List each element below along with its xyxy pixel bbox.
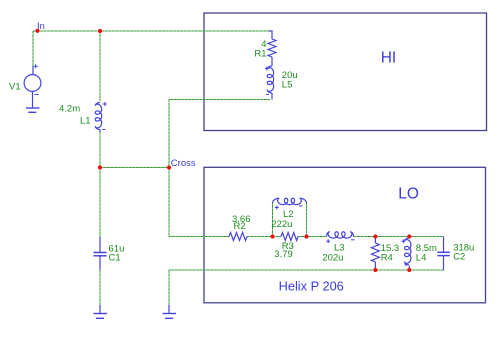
junction L4 bottom bbox=[407, 268, 411, 272]
L3 minus mark bbox=[351, 239, 355, 241]
L2 minus mark bbox=[299, 205, 303, 207]
svg-text:R1: R1 bbox=[254, 49, 266, 60]
wire L2 left vertical bbox=[272, 203, 274, 237]
wire L1 to Cross node bbox=[99, 132, 101, 168]
svg-text:C2: C2 bbox=[453, 252, 465, 263]
junction L4 top bbox=[407, 234, 411, 238]
node In dot bbox=[35, 29, 39, 33]
svg-text:L4: L4 bbox=[416, 253, 427, 264]
svg-text:V1: V1 bbox=[9, 82, 21, 93]
HI block box bbox=[204, 13, 487, 131]
resistor R3 bbox=[281, 233, 298, 241]
wire L1 branch top bbox=[99, 31, 101, 101]
node Cross dot bbox=[167, 165, 171, 169]
L1 minus mark bbox=[102, 129, 105, 131]
resistor R2 bbox=[229, 233, 247, 241]
junction R4 top bbox=[373, 234, 377, 238]
L1 plus mark bbox=[103, 102, 107, 106]
wire Cross horizontal bbox=[100, 167, 169, 169]
ground under LO return bbox=[163, 305, 177, 318]
junction L2-R3 right bbox=[304, 234, 308, 238]
inductor L4 bbox=[408, 237, 410, 239]
wire HI output down to Cross and LO input bbox=[168, 100, 170, 237]
resistor R4 bbox=[374, 237, 376, 244]
wire V1 top lead vertical bbox=[32, 31, 34, 66]
L3 plus mark bbox=[326, 239, 330, 243]
svg-text:HI: HI bbox=[381, 50, 397, 67]
L5 minus mark bbox=[266, 94, 269, 96]
junction at Cross left bbox=[98, 165, 102, 169]
svg-text:Cross: Cross bbox=[171, 158, 196, 169]
inductor L1 bbox=[95, 103, 101, 130]
wire In node to HI input (top horizontal) bbox=[33, 30, 269, 32]
resistor R1 bbox=[269, 31, 272, 39]
junction L2-R3 left bbox=[270, 234, 274, 238]
svg-text:4.2m: 4.2m bbox=[59, 104, 80, 115]
L4 minus mark bbox=[405, 264, 408, 266]
L4 plus mark bbox=[401, 239, 405, 243]
junction R4 bottom bbox=[373, 268, 377, 272]
wire L3 to R4 L4 C2 top bbox=[354, 236, 444, 238]
inductor L5 bbox=[267, 66, 273, 93]
svg-text:222u: 222u bbox=[271, 219, 292, 230]
wire R3 to L3 bbox=[298, 236, 327, 238]
inductor L3 bbox=[327, 232, 354, 238]
capacitor C1 bbox=[94, 237, 107, 270]
wire LO bottom return bbox=[169, 269, 444, 271]
svg-text:202u: 202u bbox=[322, 253, 343, 264]
junction at L1 top bbox=[98, 29, 102, 33]
ground under V1 bbox=[26, 108, 40, 112]
L2 plus mark bbox=[275, 206, 279, 210]
wire L2 right vertical bbox=[306, 203, 308, 237]
ground under C1 bbox=[94, 305, 108, 318]
L5 plus mark bbox=[265, 67, 269, 71]
svg-text:In: In bbox=[37, 21, 45, 32]
svg-text:LO: LO bbox=[398, 185, 419, 202]
wire C1 to ground bbox=[99, 270, 101, 305]
svg-text:C1: C1 bbox=[109, 253, 121, 264]
svg-text:Helix P 206: Helix P 206 bbox=[279, 279, 344, 294]
wire node to C1 bbox=[99, 168, 101, 238]
LO block box bbox=[204, 167, 486, 302]
voltage source V1 bbox=[24, 64, 41, 108]
wire HI output bottom horizontal bbox=[169, 99, 270, 101]
wire LO input horizontal to R2 bbox=[169, 236, 229, 238]
wire LO return down to ground bbox=[168, 270, 170, 305]
capacitor C2 bbox=[437, 237, 450, 271]
svg-text:R4: R4 bbox=[381, 253, 393, 264]
svg-text:3.79: 3.79 bbox=[274, 249, 293, 260]
svg-text:L1: L1 bbox=[80, 116, 91, 127]
svg-text:R2: R2 bbox=[234, 221, 246, 232]
inductor L2 bbox=[273, 198, 307, 204]
svg-text:L5: L5 bbox=[282, 80, 293, 91]
wire R2 to L2/R3 node bbox=[247, 236, 281, 238]
